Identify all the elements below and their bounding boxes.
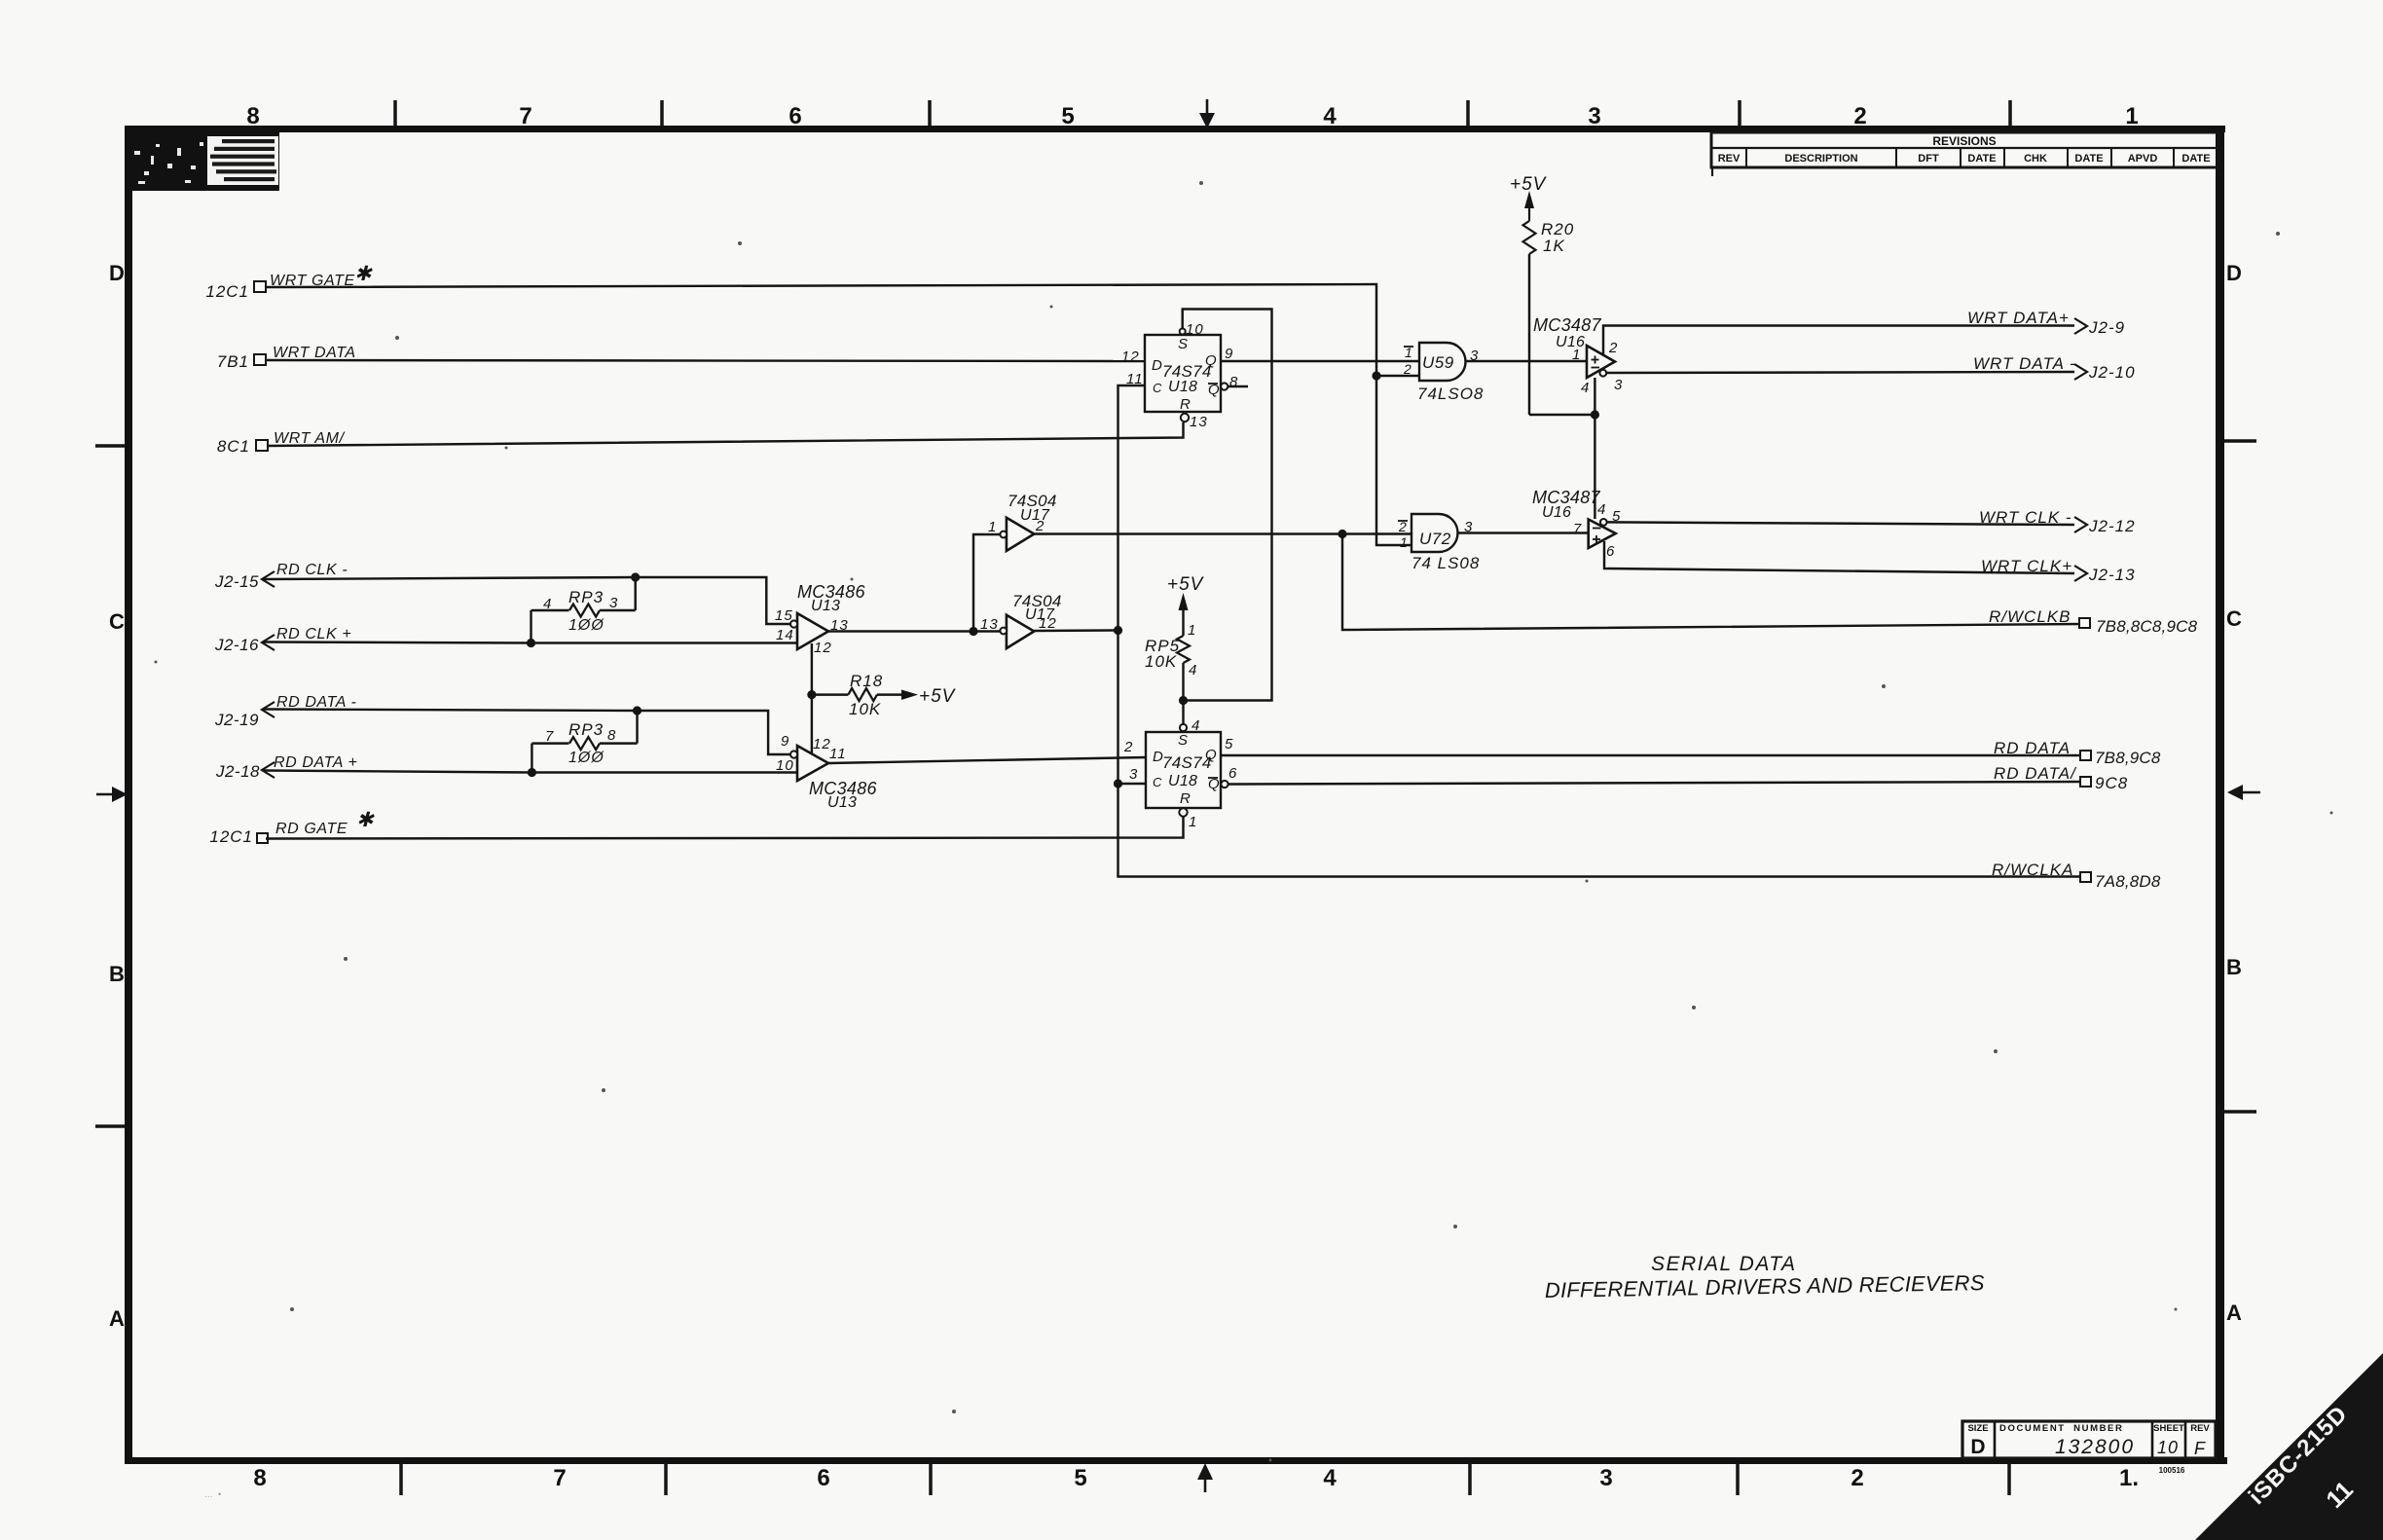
svg-text:B: B — [2226, 955, 2242, 979]
svg-text:… •: … • — [204, 1489, 221, 1499]
svg-text:U13: U13 — [827, 794, 857, 811]
svg-text:1: 1 — [1400, 534, 1409, 550]
svg-text:J2-13: J2-13 — [2088, 566, 2136, 584]
svg-text:D: D — [2226, 261, 2242, 285]
svg-text:5: 5 — [1612, 508, 1621, 525]
svg-text:B: B — [109, 962, 125, 986]
svg-text:5: 5 — [1074, 1465, 1086, 1491]
svg-text:3: 3 — [1614, 377, 1623, 393]
svg-text:8: 8 — [246, 103, 259, 129]
svg-text:6: 6 — [788, 103, 801, 129]
svg-text:1: 1 — [988, 519, 997, 535]
svg-text:12: 12 — [813, 736, 831, 752]
svg-text:13: 13 — [980, 616, 999, 633]
svg-text:RD CLK +: RD CLK + — [276, 626, 351, 642]
svg-text:U72: U72 — [1419, 530, 1451, 548]
svg-text:4: 4 — [1323, 1465, 1337, 1491]
svg-text:J2-16: J2-16 — [214, 636, 259, 654]
svg-text:WRT CLK -: WRT CLK - — [1979, 508, 2072, 527]
svg-text:100516: 100516 — [2159, 1466, 2185, 1475]
svg-text:10: 10 — [776, 757, 794, 774]
svg-text:7: 7 — [553, 1465, 566, 1491]
svg-text:RD CLK -: RD CLK - — [276, 562, 348, 578]
svg-text:SHEET: SHEET — [2153, 1423, 2184, 1434]
svg-text:D: D — [1152, 357, 1162, 374]
svg-text:12C1: 12C1 — [209, 827, 253, 846]
svg-text:12: 12 — [1039, 615, 1057, 632]
svg-text:1.: 1. — [2119, 1465, 2139, 1491]
svg-text:REV: REV — [2190, 1423, 2210, 1434]
svg-text:C: C — [1153, 775, 1162, 789]
svg-text:6: 6 — [1228, 765, 1237, 782]
svg-text:WRT DATA: WRT DATA — [273, 345, 356, 361]
svg-text:7: 7 — [519, 103, 532, 129]
svg-text:1ØØ: 1ØØ — [568, 750, 605, 766]
svg-text:4: 4 — [1597, 501, 1606, 518]
svg-text:U16: U16 — [1542, 504, 1571, 521]
svg-text:2: 2 — [1851, 1465, 1863, 1491]
svg-text:R: R — [1180, 790, 1191, 807]
svg-text:MC3487: MC3487 — [1533, 315, 1602, 335]
svg-text:3: 3 — [609, 595, 618, 611]
svg-text:C: C — [2226, 606, 2242, 631]
svg-text:U13: U13 — [811, 598, 840, 614]
svg-text:8C1: 8C1 — [217, 437, 250, 456]
svg-text:7B8,9C8: 7B8,9C8 — [2095, 749, 2161, 767]
svg-text:2: 2 — [1403, 361, 1412, 377]
svg-text:8: 8 — [607, 727, 616, 744]
svg-text:7: 7 — [1573, 521, 1582, 537]
svg-text:10: 10 — [2157, 1438, 2179, 1457]
svg-text:✱: ✱ — [354, 263, 373, 285]
svg-text:DATE: DATE — [1967, 153, 1996, 165]
svg-text:R/WCLKA: R/WCLKA — [1992, 861, 2073, 879]
svg-text:J2-10: J2-10 — [2088, 363, 2136, 382]
svg-text:RD DATA/: RD DATA/ — [1994, 764, 2077, 783]
svg-text:J2-15: J2-15 — [214, 572, 259, 591]
svg-text:10: 10 — [1186, 321, 1204, 338]
svg-text:S: S — [1178, 336, 1188, 352]
svg-text:4: 4 — [1323, 103, 1337, 129]
svg-text:9: 9 — [781, 733, 789, 750]
svg-text:3: 3 — [1129, 766, 1138, 783]
svg-text:3: 3 — [1470, 348, 1479, 364]
svg-text:U59: U59 — [1422, 353, 1454, 372]
svg-text:7B1: 7B1 — [217, 352, 249, 371]
svg-text:12: 12 — [1121, 348, 1140, 365]
svg-text:S: S — [1178, 732, 1188, 749]
svg-text:10K: 10K — [849, 700, 881, 718]
svg-text:U18: U18 — [1168, 379, 1197, 395]
svg-text:+5V: +5V — [1510, 174, 1548, 195]
svg-text:RD DATA: RD DATA — [1994, 739, 2071, 757]
svg-text:APVD: APVD — [2128, 153, 2158, 165]
svg-text:6: 6 — [817, 1465, 829, 1491]
svg-text:13: 13 — [1190, 414, 1208, 430]
svg-text:J2-18: J2-18 — [215, 762, 260, 781]
svg-text:+5V: +5V — [919, 686, 957, 707]
svg-text:2: 2 — [1123, 739, 1133, 755]
svg-text:F: F — [2194, 1439, 2206, 1458]
svg-text:3: 3 — [1588, 103, 1600, 129]
svg-text:1: 1 — [1572, 347, 1581, 363]
svg-text:Q: Q — [1205, 747, 1217, 763]
svg-text:10K: 10K — [1145, 652, 1177, 671]
svg-text:15: 15 — [775, 607, 793, 624]
svg-text:74 LS08: 74 LS08 — [1411, 554, 1480, 572]
svg-text:D: D — [109, 261, 125, 285]
svg-text:C: C — [1153, 381, 1162, 395]
svg-text:8: 8 — [253, 1465, 266, 1491]
svg-text:9C8: 9C8 — [2095, 774, 2128, 792]
svg-text:J2-19: J2-19 — [214, 711, 259, 729]
svg-text:9: 9 — [1225, 346, 1233, 362]
svg-text:J2-9: J2-9 — [2088, 318, 2125, 337]
svg-text:A: A — [2226, 1301, 2242, 1325]
svg-text:J2-12: J2-12 — [2088, 517, 2136, 535]
svg-text:DATE: DATE — [2181, 153, 2210, 165]
svg-text:SIZE: SIZE — [1967, 1423, 1988, 1434]
svg-text:DOCUMENT NUMBER: DOCUMENT NUMBER — [1999, 1423, 2123, 1434]
svg-text:12: 12 — [814, 640, 832, 656]
svg-text:WRT DATA+: WRT DATA+ — [1967, 309, 2070, 327]
svg-text:132800: 132800 — [2055, 1436, 2135, 1458]
svg-text:7A8,8D8: 7A8,8D8 — [2095, 872, 2161, 891]
svg-text:SERIAL DATA: SERIAL DATA — [1651, 1253, 1797, 1275]
svg-text:12C1: 12C1 — [205, 282, 249, 301]
svg-text:74LSO8: 74LSO8 — [1417, 385, 1484, 403]
svg-text:8: 8 — [1229, 374, 1238, 390]
svg-text:RD GATE: RD GATE — [275, 821, 348, 837]
svg-text:4: 4 — [543, 596, 552, 612]
svg-text:2: 2 — [1608, 340, 1618, 356]
svg-text:1: 1 — [2125, 103, 2138, 129]
svg-text:REVISIONS: REVISIONS — [1932, 134, 1996, 148]
svg-text:Q: Q — [1205, 352, 1217, 369]
svg-text:1ØØ: 1ØØ — [568, 617, 605, 634]
svg-text:4: 4 — [1581, 380, 1590, 396]
svg-text:RP3: RP3 — [568, 588, 604, 606]
svg-text:WRT CLK+: WRT CLK+ — [1981, 557, 2072, 575]
svg-text:4: 4 — [1191, 717, 1200, 734]
svg-text:2: 2 — [1853, 103, 1866, 129]
svg-text:7B8,8C8,9C8: 7B8,8C8,9C8 — [2096, 617, 2198, 636]
svg-text:1K: 1K — [1543, 237, 1565, 255]
svg-text:14: 14 — [776, 627, 794, 643]
svg-text:✱: ✱ — [356, 809, 375, 831]
svg-text:3: 3 — [1464, 519, 1473, 535]
svg-text:+5V: +5V — [1167, 574, 1205, 595]
svg-text:A: A — [109, 1306, 125, 1331]
svg-text:11: 11 — [829, 746, 847, 762]
svg-text:RD DATA +: RD DATA + — [274, 754, 357, 771]
svg-text:1: 1 — [1188, 622, 1196, 639]
svg-text:13: 13 — [830, 617, 849, 634]
svg-text:1: 1 — [1189, 814, 1197, 830]
svg-text:5: 5 — [1225, 736, 1233, 752]
svg-text:R/WCLKB: R/WCLKB — [1989, 607, 2071, 626]
svg-text:4: 4 — [1189, 662, 1197, 678]
svg-text:CHK: CHK — [2024, 153, 2047, 165]
svg-text:R18: R18 — [850, 672, 883, 690]
svg-text:R: R — [1180, 396, 1191, 413]
svg-text:2: 2 — [1035, 518, 1045, 534]
svg-text:3: 3 — [1599, 1465, 1612, 1491]
svg-text:REV: REV — [1718, 153, 1741, 165]
svg-text:RP3: RP3 — [568, 720, 604, 739]
svg-text:C: C — [109, 609, 125, 634]
svg-text:WRT DATA -: WRT DATA - — [1973, 354, 2076, 373]
svg-text:DESCRIPTION: DESCRIPTION — [1784, 153, 1857, 165]
svg-text:7: 7 — [545, 728, 554, 745]
svg-text:6: 6 — [1606, 543, 1615, 560]
svg-text:11: 11 — [1126, 371, 1144, 387]
svg-text:DFT: DFT — [1918, 153, 1939, 165]
svg-text:DATE: DATE — [2074, 153, 2103, 165]
svg-text:5: 5 — [1061, 103, 1074, 129]
svg-text:U18: U18 — [1168, 773, 1197, 789]
svg-text:D: D — [1970, 1436, 1985, 1458]
